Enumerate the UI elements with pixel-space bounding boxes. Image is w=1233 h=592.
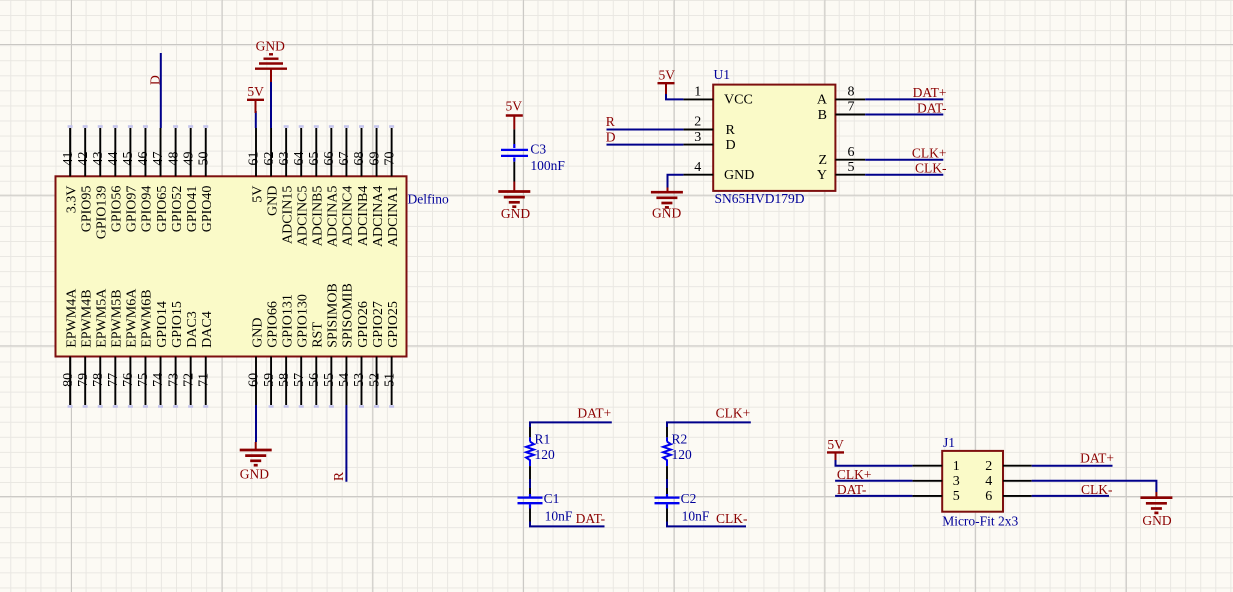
pin 69 (ADCINA4) top — [367, 125, 386, 247]
svg-text:ADCINB5: ADCINB5 — [311, 186, 326, 247]
svg-text:5: 5 — [953, 489, 960, 504]
pin 72 (DAC3) bottom — [181, 311, 200, 408]
wire 5V to pin 61 — [255, 111, 257, 128]
svg-text:R1: R1 — [535, 432, 551, 447]
svg-text:D: D — [148, 75, 163, 85]
svg-text:GPIO25: GPIO25 — [386, 301, 401, 348]
svg-text:47: 47 — [151, 152, 166, 166]
J1 pin 5 — [912, 489, 959, 504]
svg-text:CLK-: CLK- — [1081, 482, 1113, 497]
pin 43 (GPIO139) top — [91, 125, 110, 239]
wire 5V to J1 pin 1 — [836, 460, 913, 466]
IC U1 body — [713, 85, 835, 191]
svg-text:58: 58 — [277, 373, 292, 387]
pin 55 (SPISIMOB) bottom — [322, 283, 341, 408]
svg-text:DAT+: DAT+ — [913, 85, 947, 100]
wire net DAT- to J1 pin 5 — [835, 495, 912, 497]
svg-text:GPIO56: GPIO56 — [110, 186, 125, 233]
power 5V (C3) — [506, 99, 523, 130]
svg-text:48: 48 — [166, 152, 181, 166]
pin 76 (EPWM6A) bottom — [121, 288, 140, 408]
svg-text:Micro-Fit 2x3: Micro-Fit 2x3 — [942, 514, 1018, 529]
pin 68 (ADCINB4) top — [352, 125, 371, 246]
svg-text:62: 62 — [262, 152, 277, 166]
svg-text:GPIO41: GPIO41 — [185, 186, 200, 233]
svg-text:6: 6 — [985, 489, 992, 504]
svg-text:C1: C1 — [544, 491, 560, 506]
pin 51 (GPIO25) bottom — [382, 301, 401, 408]
wire net D to U1 pin 3 — [607, 144, 684, 146]
svg-text:A: A — [817, 93, 828, 108]
J1 pin 1 — [912, 459, 959, 474]
svg-text:CLK+: CLK+ — [912, 146, 947, 161]
svg-text:ADCINC5: ADCINC5 — [296, 186, 311, 247]
wire net DAT+ from U1 pin 8 — [865, 98, 943, 100]
svg-text:R: R — [726, 123, 736, 138]
svg-text:2: 2 — [694, 115, 701, 130]
svg-text:70: 70 — [382, 152, 397, 166]
svg-text:73: 73 — [166, 373, 181, 387]
svg-text:100nF: 100nF — [530, 158, 565, 173]
svg-text:ADCINC4: ADCINC4 — [341, 186, 356, 247]
svg-text:VCC: VCC — [724, 93, 753, 108]
svg-text:GND: GND — [265, 186, 280, 216]
wire GND from J1 pin 4 — [1032, 481, 1157, 492]
svg-text:63: 63 — [277, 152, 292, 166]
svg-text:79: 79 — [76, 373, 91, 387]
svg-text:8: 8 — [848, 85, 855, 100]
svg-text:3: 3 — [694, 130, 701, 145]
svg-text:5V: 5V — [250, 186, 265, 203]
pin 74 (GPIO14) bottom — [151, 301, 170, 408]
pin 44 (GPIO56) top — [106, 125, 125, 232]
svg-text:ADCIN15: ADCIN15 — [280, 186, 295, 244]
svg-text:46: 46 — [136, 152, 151, 166]
wire net CLK- from J1 pin 6 — [1032, 495, 1109, 497]
pin 63 (ADCIN15) top — [277, 125, 296, 244]
svg-text:GND: GND — [501, 206, 530, 221]
svg-text:71: 71 — [196, 373, 211, 387]
svg-text:GND: GND — [240, 466, 269, 481]
J1 pin 3 — [912, 474, 959, 489]
svg-text:50: 50 — [196, 152, 211, 166]
svg-text:U1: U1 — [714, 67, 731, 82]
svg-text:42: 42 — [76, 152, 91, 166]
pin 57 (GPIO130) bottom — [292, 294, 311, 408]
svg-text:3.3V: 3.3V — [64, 186, 79, 214]
svg-text:78: 78 — [91, 373, 106, 387]
pin 50 (GPIO40) top — [196, 125, 215, 232]
svg-text:GPIO27: GPIO27 — [371, 301, 386, 348]
pin 62 (GND) top — [262, 128, 281, 216]
capacitor C1 — [518, 488, 543, 522]
pin 54 (SPISOMIB) bottom — [337, 283, 356, 405]
svg-text:DAC3: DAC3 — [185, 311, 200, 348]
wire 5V to U1 pin 1 — [666, 94, 683, 99]
svg-text:GPIO131: GPIO131 — [280, 294, 295, 348]
wire net DAT- from U1 pin 7 — [865, 114, 943, 116]
ground GND (U1) — [651, 188, 683, 221]
svg-text:57: 57 — [292, 373, 307, 387]
svg-text:10nF: 10nF — [682, 508, 710, 523]
svg-text:6: 6 — [848, 145, 855, 160]
svg-text:7: 7 — [848, 100, 855, 115]
svg-text:61: 61 — [247, 152, 262, 166]
pin 56 (RST) bottom — [307, 322, 326, 408]
capacitor C3 — [501, 129, 528, 181]
pin 70 (ADCINA1) top — [382, 125, 401, 247]
wire GND from pin 60 — [255, 405, 257, 442]
wire net CLK+ from U1 pin 6 — [865, 159, 943, 161]
svg-text:43: 43 — [91, 152, 106, 166]
svg-text:10nF: 10nF — [545, 508, 573, 523]
svg-text:DAT+: DAT+ — [1080, 451, 1114, 466]
svg-text:SN65HVD179D: SN65HVD179D — [715, 191, 805, 206]
svg-text:GND: GND — [652, 206, 681, 221]
pin 77 (EPWM5B) bottom — [106, 289, 125, 407]
wire net CLK+ (top of R2) — [667, 422, 751, 427]
svg-text:80: 80 — [61, 373, 76, 387]
svg-text:C3: C3 — [530, 142, 546, 157]
wire net R from pin 54 — [345, 405, 347, 482]
svg-text:65: 65 — [307, 152, 322, 166]
pin 66 (ADCINA5) top — [322, 125, 341, 247]
svg-text:5V: 5V — [247, 84, 264, 99]
ground GND (C3) — [498, 182, 530, 221]
svg-text:ADCINA5: ADCINA5 — [326, 186, 341, 247]
svg-text:4: 4 — [694, 160, 701, 175]
svg-text:CLK-: CLK- — [716, 511, 748, 526]
svg-text:DAT-: DAT- — [576, 511, 606, 526]
pin 67 (ADCINC4) top — [337, 125, 356, 246]
wire net DAT+ (top of R1) — [530, 422, 612, 427]
svg-text:59: 59 — [262, 373, 277, 387]
svg-text:GPIO65: GPIO65 — [155, 186, 170, 233]
power 5V (J1 pin1) — [827, 437, 844, 460]
wire GND to U1 pin 4 — [668, 175, 684, 188]
svg-text:CLK+: CLK+ — [837, 467, 872, 482]
U1 pin 7 (B) — [818, 100, 866, 123]
svg-text:69: 69 — [367, 152, 382, 166]
U1 pin 4 (GND) — [683, 160, 754, 183]
wire R2 to C2 — [666, 479, 668, 488]
svg-text:GPIO14: GPIO14 — [155, 301, 170, 348]
svg-text:DAT-: DAT- — [837, 482, 867, 497]
U1 pin 3 (D) — [683, 130, 735, 153]
svg-text:52: 52 — [367, 373, 382, 387]
svg-text:ADCINA4: ADCINA4 — [371, 186, 386, 247]
pin 78 (EPWM5A) bottom — [91, 288, 110, 408]
U1 pin 1 (VCC) — [683, 85, 752, 108]
capacitor C2 — [655, 488, 680, 522]
svg-text:74: 74 — [151, 373, 166, 387]
svg-text:120: 120 — [672, 447, 693, 462]
svg-text:DAT+: DAT+ — [577, 406, 611, 421]
pin 59 (GPIO66) bottom — [262, 301, 281, 408]
wire GND to pin 62 — [270, 80, 272, 128]
pin 61 (5V) top — [247, 128, 266, 203]
svg-text:Delfino: Delfino — [408, 192, 449, 207]
pin 41 (3.3V) top — [61, 125, 80, 213]
pin 65 (ADCINB5) top — [307, 125, 326, 246]
svg-text:GPIO26: GPIO26 — [356, 301, 371, 348]
pin 53 (GPIO26) bottom — [352, 301, 371, 408]
svg-text:72: 72 — [181, 373, 196, 387]
svg-text:ADCINB4: ADCINB4 — [356, 186, 371, 247]
svg-text:GND: GND — [724, 168, 754, 183]
svg-text:Z: Z — [818, 153, 827, 168]
pin 46 (GPIO94) top — [136, 125, 155, 232]
U1 pin 5 (Y) — [817, 160, 865, 183]
wire net CLK- from U1 pin 5 — [865, 174, 943, 176]
resistor R1 — [526, 427, 534, 479]
pin 48 (GPIO52) top — [166, 125, 185, 232]
svg-text:GND: GND — [1142, 513, 1171, 528]
svg-text:EPWM4A: EPWM4A — [64, 288, 79, 348]
svg-text:SPISOMIB: SPISOMIB — [341, 283, 356, 348]
svg-text:D: D — [606, 129, 616, 144]
svg-text:53: 53 — [352, 373, 367, 387]
U1 pin 2 (R) — [683, 115, 735, 138]
svg-text:76: 76 — [121, 373, 136, 387]
pin 60 (GND) bottom — [247, 317, 266, 405]
pin 42 (GPIO95) top — [76, 125, 95, 232]
pin 71 (DAC4) bottom — [196, 311, 215, 408]
pin 73 (GPIO15) bottom — [166, 301, 185, 408]
svg-text:120: 120 — [535, 447, 556, 462]
svg-text:R: R — [331, 472, 346, 481]
svg-text:54: 54 — [337, 373, 352, 387]
svg-text:DAT-: DAT- — [917, 100, 947, 115]
svg-text:5V: 5V — [659, 68, 676, 83]
svg-text:GPIO94: GPIO94 — [140, 186, 155, 233]
svg-text:3: 3 — [953, 474, 960, 489]
pin 58 (GPIO131) bottom — [277, 294, 296, 408]
svg-text:GPIO139: GPIO139 — [95, 186, 110, 240]
power GND inverted (pin 62) — [255, 39, 287, 82]
svg-text:ADCINA1: ADCINA1 — [386, 186, 401, 247]
wire R1 to C1 — [529, 479, 531, 488]
svg-text:B: B — [818, 108, 827, 123]
svg-text:GPIO52: GPIO52 — [170, 186, 185, 233]
svg-text:GPIO66: GPIO66 — [265, 301, 280, 348]
J1 pin 4 — [985, 474, 1031, 489]
svg-text:CLK+: CLK+ — [716, 406, 751, 421]
svg-text:RST: RST — [311, 322, 326, 348]
svg-text:5: 5 — [848, 160, 855, 175]
pin 52 (GPIO27) bottom — [367, 301, 386, 408]
svg-text:GND: GND — [250, 317, 265, 347]
svg-text:41: 41 — [61, 152, 76, 166]
svg-text:GPIO40: GPIO40 — [200, 186, 215, 233]
svg-text:49: 49 — [181, 152, 196, 166]
svg-text:77: 77 — [106, 373, 121, 387]
svg-text:CLK-: CLK- — [915, 161, 947, 176]
U1 pin 6 (Z) — [818, 145, 865, 168]
pin 49 (GPIO41) top — [181, 125, 200, 232]
U1 pin 8 (A) — [817, 85, 865, 108]
svg-text:GPIO97: GPIO97 — [125, 186, 140, 233]
svg-text:DAC4: DAC4 — [200, 311, 215, 348]
svg-text:J1: J1 — [943, 435, 955, 450]
svg-text:EPWM4B: EPWM4B — [79, 289, 94, 347]
pin 64 (ADCINC5) top — [292, 125, 311, 246]
svg-text:GPIO130: GPIO130 — [296, 294, 311, 348]
svg-text:EPWM5A: EPWM5A — [95, 288, 110, 348]
svg-text:EPWM6B: EPWM6B — [140, 289, 155, 347]
J1 pin 6 — [985, 489, 1031, 504]
svg-text:75: 75 — [136, 373, 151, 387]
svg-text:R2: R2 — [672, 432, 688, 447]
svg-text:1: 1 — [953, 459, 960, 474]
svg-text:66: 66 — [322, 152, 337, 166]
svg-text:45: 45 — [121, 152, 136, 166]
svg-text:Y: Y — [817, 168, 827, 183]
svg-text:60: 60 — [247, 373, 262, 387]
pin 80 (EPWM4A) bottom — [61, 288, 80, 408]
svg-text:EPWM5B: EPWM5B — [110, 289, 125, 347]
svg-text:5V: 5V — [827, 437, 844, 452]
svg-text:GPIO15: GPIO15 — [170, 301, 185, 348]
J1 pin 2 — [985, 459, 1031, 474]
connector J1 body — [942, 451, 1003, 512]
pin 45 (GPIO97) top — [121, 125, 140, 232]
power 5V (U1 pin1) — [658, 68, 676, 94]
svg-text:2: 2 — [985, 459, 992, 474]
svg-text:56: 56 — [307, 373, 322, 387]
wire net R to U1 pin 2 — [607, 129, 684, 131]
svg-text:D: D — [726, 138, 736, 153]
pin 75 (EPWM6B) bottom — [136, 289, 155, 407]
svg-text:67: 67 — [337, 152, 352, 166]
svg-text:44: 44 — [106, 152, 121, 166]
resistor R2 — [663, 427, 671, 479]
svg-text:4: 4 — [985, 474, 992, 489]
wire net CLK+ to J1 pin 3 — [835, 480, 912, 482]
wire net DAT- (bottom of C1) — [530, 522, 605, 527]
ground GND (pin 60) — [240, 442, 272, 481]
power 5V (pin 61) — [247, 84, 264, 113]
svg-text:GPIO95: GPIO95 — [79, 186, 94, 233]
wire net DAT+ from J1 pin 2 — [1032, 465, 1113, 467]
wire net CLK- (bottom of C2) — [667, 522, 746, 527]
svg-text:5V: 5V — [506, 99, 523, 114]
svg-text:1: 1 — [694, 85, 701, 100]
svg-text:C2: C2 — [681, 491, 697, 506]
pin 79 (EPWM4B) bottom — [76, 289, 95, 407]
ground GND (J1) — [1140, 492, 1172, 528]
wire net D to pin 47 — [160, 53, 162, 128]
svg-text:R: R — [606, 114, 615, 129]
svg-text:GND: GND — [256, 39, 285, 54]
svg-text:68: 68 — [352, 152, 367, 166]
svg-text:51: 51 — [382, 373, 397, 387]
IC body Delfino — [56, 176, 407, 356]
svg-text:55: 55 — [322, 373, 337, 387]
svg-text:64: 64 — [292, 152, 307, 166]
svg-text:EPWM6A: EPWM6A — [125, 288, 140, 348]
pin 47 (GPIO65) top — [151, 128, 170, 232]
svg-text:SPISIMOB: SPISIMOB — [326, 283, 341, 348]
